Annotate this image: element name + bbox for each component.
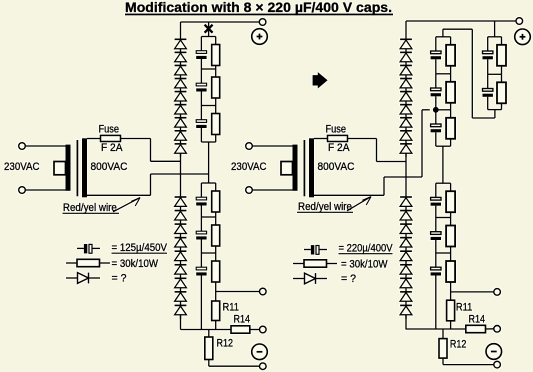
wire (25, 189, 65, 191)
resistor R12 left (205, 330, 213, 367)
diode L-bot-6 (175, 265, 187, 279)
wire col1-col2 link horizontal (472, 110, 495, 118)
diode R-top-7 (400, 118, 412, 131)
svg-text:R11: R11 (456, 302, 473, 314)
svg-text:R12: R12 (217, 338, 234, 350)
terminal mid left (260, 288, 267, 295)
resistor C5-R (446, 218, 455, 254)
wire output top left (181, 21, 260, 23)
svg-text:= 30k/10W: = 30k/10W (341, 259, 388, 271)
diode L-bot-9 (175, 305, 187, 319)
wire diode rail bottom (180, 315, 182, 330)
diode L-top-9 (175, 144, 187, 157)
diode L-bot-2 (175, 211, 187, 225)
junction dot (433, 107, 439, 113)
diode R-bot-1 (400, 197, 412, 211)
wire fuse to ladder right (348, 138, 377, 140)
diode L-bot-5 (175, 251, 187, 265)
wire mid terminal right (451, 291, 494, 293)
resistor C5-L (212, 217, 220, 253)
rung (436, 252, 451, 254)
svg-text:= 220µ/400V: = 220µ/400V (339, 243, 394, 255)
svg-text:= 30k/10W: = 30k/10W (112, 258, 159, 270)
diode R-top-9 (400, 144, 412, 157)
wire (25, 145, 65, 147)
wire diode rail mid (180, 153, 182, 197)
diode L-top-3 (175, 65, 187, 78)
rung (201, 105, 215, 107)
svg-text:Modification with 8 × 220 µF/4: Modification with 8 × 220 µF/400 V caps. (125, 0, 392, 15)
diode R-bot-6 (400, 265, 412, 279)
rung (201, 252, 215, 254)
rung col2 (488, 73, 502, 75)
diode L-bot-4 (175, 238, 187, 252)
svg-text:F 2A: F 2A (328, 142, 350, 154)
terminal R14 right (494, 326, 501, 333)
rung merge right (436, 145, 451, 147)
wire secondary top (87, 138, 101, 140)
diode R-top-5 (400, 92, 412, 105)
polarity marker - left (252, 344, 268, 360)
wire (252, 145, 292, 147)
rung (201, 216, 215, 218)
diode R-bot-7 (400, 278, 412, 292)
terminal bottom left (260, 363, 267, 370)
svg-text:= 125µ/450V: = 125µ/450V (112, 242, 168, 254)
transformer T2 primary winding (293, 145, 298, 191)
terminal primary-bottom-R (246, 187, 253, 194)
polarity marker + left (252, 29, 268, 45)
terminal primary-bottom-L (19, 187, 26, 194)
resistor C1-R (446, 37, 455, 74)
capacitor C6-L (196, 253, 206, 330)
resistor C3-R (446, 110, 455, 146)
diode L-top-6 (175, 105, 187, 118)
wire secondary top right (314, 138, 328, 140)
capacitor C4-L (196, 183, 206, 217)
wire diode rail mid right (405, 153, 407, 197)
svg-text:Fuse: Fuse (326, 124, 347, 136)
transformer T2 primary tap box (281, 162, 293, 175)
resistor C8-R (497, 74, 506, 109)
wire diode rail top right (405, 21, 407, 39)
resistor R11 right (447, 300, 455, 329)
diode R-bot-9 (400, 305, 412, 319)
svg-text:= ?: = ? (112, 273, 127, 285)
wire col2 top stub (494, 21, 496, 37)
diode L-bot-3 (175, 224, 187, 238)
svg-text:Fuse: Fuse (99, 124, 120, 136)
wire secondary bottom red/yel right (314, 194, 384, 196)
fuse F1 (101, 135, 121, 141)
svg-text:R14: R14 (469, 314, 486, 326)
resistor C2-R (446, 74, 455, 110)
legend capacitor symbol left (77, 244, 100, 253)
wire ladder center left (208, 142, 210, 183)
diode R-top-4 (400, 79, 412, 92)
diode R-top-2 (400, 52, 412, 65)
transformer T1 secondary winding (82, 138, 87, 197)
svg-text:230VAC: 230VAC (4, 161, 40, 173)
capacitor C5-R (431, 218, 441, 254)
diode R-bot-5 (400, 251, 412, 265)
rung merge (201, 141, 215, 143)
transformer T2 core (303, 140, 305, 196)
svg-text:800VAC: 800VAC (91, 161, 128, 173)
rung (436, 109, 451, 111)
rung split (201, 182, 215, 184)
rung split right (436, 182, 451, 184)
diode R-bot-4 (400, 238, 412, 252)
wire bottom bus left (181, 329, 232, 331)
diode L-top-2 (175, 52, 187, 65)
diode R-top-6 (400, 105, 412, 118)
terminal output+ right (516, 18, 523, 25)
capacitor C6-R (431, 253, 441, 329)
diode R-top-8 (400, 131, 412, 144)
X mark (cut here) (205, 25, 213, 33)
wire ladder center right (442, 146, 444, 183)
transformer T1 core (76, 140, 78, 196)
resistor R6-L (212, 253, 220, 301)
capacitor C1-L (196, 37, 206, 70)
capacitor C4-R (431, 183, 441, 217)
terminal output+ left (259, 19, 266, 26)
transformer T1 primary winding (66, 145, 71, 191)
terminal R14 left (260, 326, 267, 333)
resistor C7-R (497, 37, 506, 75)
wire mid terminal left (216, 291, 260, 293)
resistor C3-L (212, 106, 220, 143)
wire fuse to ladder (121, 138, 151, 140)
wire diode rail top (180, 22, 182, 39)
capacitor C5-L (196, 217, 206, 253)
terminal primary-top-L (19, 143, 26, 150)
diode L-bot-8 (175, 292, 187, 306)
resistor R6-R (446, 253, 455, 300)
resistor C1-L (212, 37, 220, 70)
legend diode symbol left (66, 273, 100, 284)
rung col2 (488, 36, 502, 38)
svg-text:F 2A: F 2A (101, 142, 123, 154)
wire secondary bottom red/yel (87, 194, 151, 196)
legend diode symbol right (293, 273, 327, 284)
diode L-top-5 (175, 92, 187, 105)
rung (436, 217, 451, 219)
diode L-top-7 (175, 118, 187, 131)
diode L-bot-7 (175, 278, 187, 292)
fuse F2 (328, 135, 348, 141)
terminal mid right (494, 289, 501, 296)
transformer T2 secondary winding (309, 138, 314, 197)
diode R-top-3 (400, 65, 412, 78)
terminal bottom right (494, 361, 501, 368)
resistor R11 left (212, 301, 220, 330)
svg-text:Red/yel wire: Red/yel wire (298, 201, 352, 213)
wire bottom bus right (406, 328, 466, 330)
resistor C4-R (446, 183, 455, 217)
wire ladder top stub left (208, 22, 210, 37)
wire bottom terminal right (443, 364, 494, 366)
capacitor C2-R (431, 74, 441, 110)
capacitor C7-R (483, 37, 493, 75)
rung col2 merge (488, 109, 502, 111)
svg-text:Red/yel wire: Red/yel wire (63, 202, 117, 214)
wire col1-col2 link vertical (471, 29, 473, 118)
svg-text:= ?: = ? (341, 273, 356, 285)
diode R-bot-3 (400, 224, 412, 238)
svg-text:R11: R11 (223, 302, 240, 314)
polarity marker - right (486, 344, 502, 360)
diode R-top-1 (400, 39, 412, 52)
rung (201, 36, 215, 38)
legend capacitor symbol right (304, 245, 327, 254)
resistor R14 left (231, 326, 260, 333)
diode L-top-8 (175, 131, 187, 144)
capacitor C2-L (196, 69, 206, 106)
svg-text:R12: R12 (450, 339, 467, 351)
wire col1 top stub right (443, 29, 472, 37)
capacitor C3-R (431, 110, 441, 146)
big arrow (313, 72, 328, 88)
diode R-bot-8 (400, 292, 412, 306)
resistor C4-L (212, 183, 220, 217)
diode R-bot-2 (400, 211, 412, 225)
rung (436, 73, 451, 75)
wire bottom terminal left (209, 365, 260, 367)
terminal primary-top-R (246, 143, 253, 150)
legend resistor symbol right (293, 260, 337, 267)
svg-text:230VAC: 230VAC (231, 161, 267, 173)
resistor C2-L (212, 69, 220, 106)
svg-text:800VAC: 800VAC (318, 161, 355, 173)
resistor R12 right (439, 329, 447, 365)
transformer T1 primary tap box (54, 162, 66, 175)
capacitor C3-L (196, 106, 206, 143)
polarity marker + right (515, 29, 531, 45)
capacitor C8-R (483, 74, 493, 109)
rung (201, 68, 215, 70)
wire diode rail bottom right (405, 315, 407, 330)
rung (436, 36, 451, 38)
diode L-bot-1 (175, 197, 187, 211)
capacitor C1-R (431, 37, 441, 74)
wire (252, 189, 292, 191)
wire output top right (406, 20, 516, 22)
resistor R14 right (466, 325, 494, 332)
arrow to red/yel wire left (113, 198, 140, 212)
title underline (125, 14, 393, 16)
legend resistor symbol left (66, 259, 110, 266)
diode L-top-4 (175, 79, 187, 92)
svg-text:R14: R14 (234, 313, 251, 325)
diode L-top-1 (175, 39, 187, 52)
arrow to red/yel wire right (347, 197, 371, 211)
